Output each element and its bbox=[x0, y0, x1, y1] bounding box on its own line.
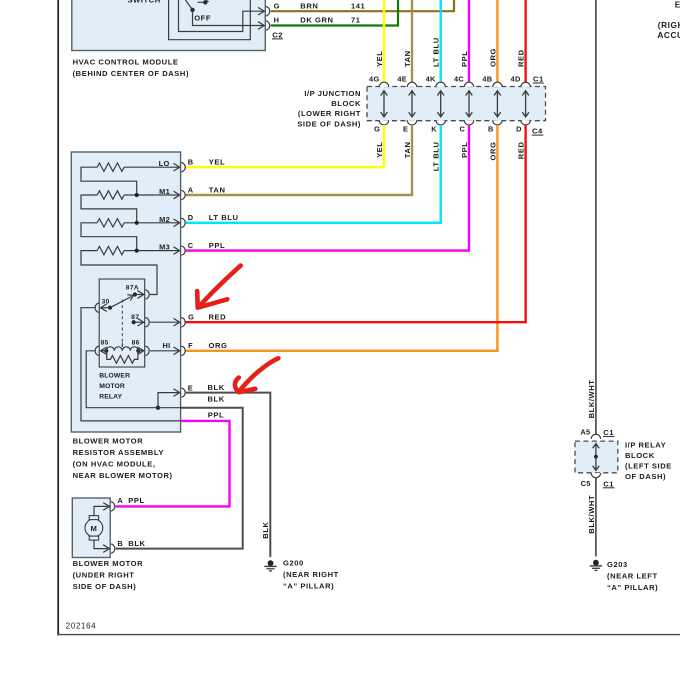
svg-text:SIDE OF DASH): SIDE OF DASH) bbox=[73, 582, 137, 591]
wire PPL from resistor box to motor pin A bbox=[116, 421, 230, 507]
svg-text:TAN: TAN bbox=[209, 185, 226, 194]
svg-text:ORG: ORG bbox=[488, 48, 497, 67]
wire 86 to relay edge bbox=[138, 350, 143, 352]
motor pin A connector arc bbox=[111, 502, 115, 511]
pin A connector arc bbox=[181, 190, 185, 199]
wire PPL to resistor pin C bbox=[185, 125, 469, 251]
svg-text:(RIGHT: (RIGHT bbox=[658, 20, 680, 30]
relay 86 connector arc bbox=[145, 346, 149, 355]
I/P relay block pass-through bump (top) bbox=[591, 434, 600, 439]
node M1 junction dot bbox=[135, 193, 139, 197]
arrow into pin F bbox=[174, 347, 180, 355]
resistor R2 (M1) bbox=[97, 191, 124, 199]
svg-text:K: K bbox=[431, 125, 437, 134]
relay 30 connector arc bbox=[95, 303, 99, 312]
svg-text:4C: 4C bbox=[454, 74, 464, 83]
relay pin 85 node bbox=[104, 349, 108, 353]
wire stub at upper contact bbox=[198, 1, 206, 3]
svg-text:MOTOR: MOTOR bbox=[99, 383, 125, 390]
wire junction to pin E bbox=[158, 393, 178, 408]
relay pin 87 node bbox=[132, 320, 136, 324]
svg-text:A5: A5 bbox=[580, 428, 590, 437]
svg-text:A: A bbox=[117, 496, 123, 505]
junction node bbox=[156, 406, 160, 410]
pin G connector arc bbox=[181, 318, 185, 327]
svg-text:YEL: YEL bbox=[375, 51, 384, 67]
HVAC control module box bbox=[72, 0, 265, 51]
svg-text:4G: 4G bbox=[369, 74, 379, 83]
wire R1 to pin B bbox=[124, 166, 178, 168]
svg-text:B: B bbox=[188, 158, 194, 167]
svg-text:(NEAR RIGHT: (NEAR RIGHT bbox=[283, 570, 339, 579]
wire junction continues right (BLK) bbox=[158, 407, 181, 409]
svg-text:71: 71 bbox=[351, 16, 361, 25]
wire 86 to pin F (HI) bbox=[150, 350, 178, 352]
svg-text:HI: HI bbox=[163, 341, 171, 350]
relay 85 connector arc bbox=[95, 346, 99, 355]
svg-text:C4: C4 bbox=[532, 127, 543, 136]
chain wire R4 left end to relay pin 87A bbox=[81, 251, 157, 295]
svg-text:RED: RED bbox=[209, 313, 227, 322]
arrow at 30 relay edge bbox=[101, 304, 107, 312]
svg-text:M2: M2 bbox=[159, 215, 170, 224]
chain wire R1 left end to M1 node bbox=[81, 167, 137, 195]
arrow at 87A relay edge bbox=[138, 291, 144, 299]
svg-text:LT BLU: LT BLU bbox=[432, 142, 441, 172]
resistor R3 (M2) bbox=[97, 219, 124, 227]
motor brush terminal (bottom) bbox=[89, 536, 98, 540]
svg-text:B: B bbox=[117, 539, 123, 548]
arrow into pin A bbox=[103, 503, 109, 511]
svg-text:(NEAR LEFT: (NEAR LEFT bbox=[607, 572, 658, 581]
wire R2 to pin A bbox=[124, 194, 178, 196]
svg-text:E: E bbox=[675, 0, 680, 9]
wire DK GRN 71 from pin H bbox=[271, 0, 398, 26]
arrow at 86 relay edge bbox=[138, 347, 144, 355]
arrow into pin A bbox=[174, 191, 180, 199]
pin G connector arc bbox=[266, 7, 270, 16]
wire BRN 141 from pin G bbox=[271, 0, 454, 11]
arrow into pin E bbox=[174, 389, 180, 397]
chain wire R3 left end to M3 node bbox=[81, 223, 137, 251]
svg-text:YEL: YEL bbox=[375, 142, 384, 158]
blower motor resistor assembly box bbox=[71, 152, 180, 432]
wire OFF contact to pin H bbox=[193, 10, 264, 26]
arrow on wiper bbox=[127, 295, 133, 301]
svg-text:G200: G200 bbox=[283, 558, 304, 567]
pin E connector arc bbox=[181, 388, 185, 397]
svg-text:202164: 202164 bbox=[66, 621, 97, 630]
svg-text:85: 85 bbox=[101, 340, 109, 347]
svg-text:A: A bbox=[188, 185, 194, 194]
wire LT BLU (top vertical) bbox=[440, 0, 442, 83]
svg-text:LO: LO bbox=[159, 159, 170, 168]
svg-text:M1: M1 bbox=[159, 187, 170, 196]
svg-text:RED: RED bbox=[517, 49, 526, 67]
blower motor relay box bbox=[99, 279, 145, 367]
switch wiper 30 to 87A bbox=[110, 296, 132, 307]
relay block center node bbox=[594, 455, 598, 459]
svg-text:(LOWER RIGHT: (LOWER RIGHT bbox=[298, 109, 361, 118]
relay 87 connector arc bbox=[145, 318, 149, 327]
wire 87 to pin G bbox=[150, 321, 178, 323]
svg-text:TAN: TAN bbox=[403, 50, 412, 67]
annotation red arrow 2 (points at BLK wire) bbox=[235, 358, 278, 392]
svg-text:G203: G203 bbox=[607, 560, 628, 569]
svg-text:BLK: BLK bbox=[208, 383, 225, 392]
svg-text:“A” PILLAR): “A” PILLAR) bbox=[283, 582, 334, 591]
svg-text:G: G bbox=[374, 125, 380, 134]
svg-text:4D: 4D bbox=[511, 74, 521, 83]
svg-text:BLK/WHT: BLK/WHT bbox=[587, 380, 596, 419]
svg-text:PPL: PPL bbox=[128, 496, 144, 505]
svg-text:F: F bbox=[188, 341, 193, 350]
wire BLK from pin E to ground G200 bbox=[186, 393, 271, 557]
svg-text:D: D bbox=[516, 125, 522, 134]
svg-text:ORG: ORG bbox=[209, 341, 228, 350]
wire BLK/WHT (top, to I/P relay block) bbox=[595, 0, 597, 439]
svg-text:C5: C5 bbox=[581, 479, 591, 488]
svg-text:H: H bbox=[274, 16, 280, 25]
wire 30 down and out (becomes PPL) bbox=[81, 308, 181, 421]
wire BLK from junction to motor pin B bbox=[116, 408, 243, 549]
svg-text:E: E bbox=[403, 125, 408, 134]
svg-text:RELAY: RELAY bbox=[99, 394, 122, 401]
svg-text:BLOWER MOTOR: BLOWER MOTOR bbox=[73, 436, 144, 445]
svg-text:RESISTOR ASSEMBLY: RESISTOR ASSEMBLY bbox=[73, 448, 164, 457]
I/P relay block pass-through bump (bottom) bbox=[591, 473, 600, 478]
svg-text:E: E bbox=[188, 383, 193, 392]
svg-text:86: 86 bbox=[132, 340, 140, 347]
svg-text:NEAR BLOWER MOTOR): NEAR BLOWER MOTOR) bbox=[73, 471, 173, 480]
relay pin 30 node bbox=[108, 306, 112, 310]
annotation red arrow 1 (points at pin G RED) bbox=[197, 266, 241, 308]
svg-text:4B: 4B bbox=[482, 74, 492, 83]
svg-text:RED: RED bbox=[517, 142, 526, 160]
wire R4 to pin C bbox=[124, 250, 178, 252]
relay pin 86 node bbox=[136, 349, 140, 353]
pin C connector arc bbox=[181, 246, 185, 255]
wire LT BLU to resistor pin D bbox=[185, 125, 440, 223]
svg-text:87A: 87A bbox=[126, 285, 139, 292]
svg-text:HVAC CONTROL MODULE: HVAC CONTROL MODULE bbox=[73, 57, 179, 66]
left page border bbox=[57, 0, 59, 635]
arrow into pin B bbox=[103, 545, 109, 553]
wire YEL (top vertical into junction block) bbox=[383, 0, 385, 83]
svg-text:“A” PILLAR): “A” PILLAR) bbox=[607, 583, 658, 592]
svg-text:4K: 4K bbox=[426, 74, 436, 83]
pin D connector arc bbox=[181, 218, 185, 227]
wire motor to pin B bbox=[94, 540, 108, 549]
ground G203 bbox=[593, 560, 599, 566]
svg-text:C1: C1 bbox=[533, 75, 544, 84]
svg-text:BLOCK: BLOCK bbox=[331, 99, 361, 108]
wire TAN to resistor pin A bbox=[185, 125, 412, 195]
arrow into pin B bbox=[174, 163, 180, 171]
svg-text:ACCUM: ACCUM bbox=[657, 30, 680, 40]
svg-text:87: 87 bbox=[131, 314, 139, 321]
svg-text:C1: C1 bbox=[603, 428, 614, 437]
svg-text:C1: C1 bbox=[603, 479, 614, 488]
motor brush terminal (top) bbox=[89, 516, 98, 520]
svg-text:M: M bbox=[90, 524, 97, 533]
wire motor to pin A bbox=[94, 506, 108, 515]
motor pin B connector arc bbox=[111, 544, 115, 553]
svg-text:(ON HVAC MODULE,: (ON HVAC MODULE, bbox=[73, 459, 156, 468]
node M3 junction dot bbox=[135, 249, 139, 253]
svg-text:PPL: PPL bbox=[460, 51, 469, 67]
svg-text:ORG: ORG bbox=[488, 142, 497, 161]
wire switch loop (both ends cut off at top) bbox=[169, 0, 251, 40]
svg-text:141: 141 bbox=[351, 1, 366, 10]
pin F connector arc bbox=[181, 346, 185, 355]
wire R3 to pin D bbox=[124, 222, 178, 224]
arrow into pin D bbox=[174, 219, 180, 227]
svg-text:G: G bbox=[188, 313, 194, 322]
svg-text:YEL: YEL bbox=[209, 158, 225, 167]
wire ORG (top vertical) bbox=[496, 0, 498, 83]
svg-text:I/P JUNCTION: I/P JUNCTION bbox=[304, 89, 361, 98]
svg-text:BLOWER: BLOWER bbox=[99, 372, 130, 379]
relay pin 87A node bbox=[133, 292, 137, 296]
svg-text:SWITCH: SWITCH bbox=[128, 0, 161, 4]
resistor R4 (M3) bbox=[97, 246, 124, 254]
junction block internal double arrows bbox=[381, 91, 529, 117]
svg-text:LT BLU: LT BLU bbox=[432, 37, 441, 67]
svg-text:D: D bbox=[188, 213, 194, 222]
wire RED to relay pin G bbox=[185, 125, 525, 322]
pin B connector arc bbox=[181, 163, 185, 172]
svg-text:B: B bbox=[488, 125, 494, 134]
arrow into pin H bbox=[258, 22, 264, 30]
svg-text:BLK: BLK bbox=[261, 521, 270, 538]
ground G200 bbox=[268, 560, 274, 566]
blower motor box bbox=[72, 498, 110, 558]
arrow into pin C bbox=[174, 247, 180, 255]
svg-text:TAN: TAN bbox=[403, 142, 412, 159]
relay coil bbox=[106, 347, 138, 351]
coil center tick bbox=[121, 342, 123, 347]
wire PPL (top vertical) bbox=[468, 0, 470, 83]
svg-text:C2: C2 bbox=[272, 30, 283, 39]
svg-text:C: C bbox=[188, 241, 194, 250]
switch wiper arm (cut off) bbox=[185, 0, 193, 10]
svg-text:G: G bbox=[274, 1, 280, 10]
svg-text:M3: M3 bbox=[159, 243, 170, 252]
junction block pass-through bumps (bottom) bbox=[379, 120, 530, 125]
svg-text:DK GRN: DK GRN bbox=[300, 16, 333, 25]
wire switch to pin G bbox=[179, 0, 264, 32]
svg-text:BLOCK: BLOCK bbox=[625, 451, 655, 460]
chain wire R2 left end to M2 node bbox=[81, 195, 137, 223]
mechanical link (dashed) bbox=[121, 300, 123, 347]
svg-text:PPL: PPL bbox=[460, 142, 469, 158]
svg-text:(LEFT SIDE: (LEFT SIDE bbox=[625, 462, 672, 471]
wire RED (top vertical) bbox=[524, 0, 526, 83]
arrow at 87 relay edge bbox=[138, 318, 144, 326]
wire TAN (top vertical) bbox=[411, 0, 413, 83]
bottom page border bbox=[57, 634, 680, 636]
motor M circle bbox=[85, 519, 103, 537]
switch OFF contact node bbox=[190, 8, 194, 12]
svg-text:BLK: BLK bbox=[128, 539, 145, 548]
wire YEL to resistor pin B bbox=[185, 125, 384, 167]
arrow at 85 relay edge bbox=[101, 347, 107, 355]
svg-text:PPL: PPL bbox=[208, 411, 224, 420]
pin H connector arc bbox=[266, 21, 270, 30]
coil parallel resistor bbox=[107, 351, 138, 363]
wire 87 to relay edge bbox=[134, 321, 143, 323]
svg-text:BLK: BLK bbox=[208, 395, 225, 404]
relay 87A connector arc bbox=[145, 290, 149, 299]
resistor R1 (LO) bbox=[97, 163, 124, 171]
svg-text:SIDE OF DASH): SIDE OF DASH) bbox=[297, 119, 361, 128]
wire ORG to relay pin F bbox=[185, 125, 497, 351]
svg-text:(UNDER RIGHT: (UNDER RIGHT bbox=[73, 571, 135, 580]
svg-text:(BEHIND CENTER OF DASH): (BEHIND CENTER OF DASH) bbox=[73, 69, 189, 78]
svg-text:PPL: PPL bbox=[209, 241, 225, 250]
svg-text:C: C bbox=[460, 125, 466, 134]
svg-text:4E: 4E bbox=[397, 74, 407, 83]
wire 85 to relay left edge bbox=[101, 350, 106, 352]
svg-text:BLOWER MOTOR: BLOWER MOTOR bbox=[73, 559, 144, 568]
arrow into pin G bbox=[174, 318, 180, 326]
I/P relay block (dashed) bbox=[575, 441, 618, 473]
svg-text:OF DASH): OF DASH) bbox=[625, 472, 666, 481]
wire BLK/WHT (bottom, to ground G203) bbox=[595, 478, 597, 557]
node M2 junction dot bbox=[135, 221, 139, 225]
svg-text:OFF: OFF bbox=[194, 13, 211, 22]
svg-text:BRN: BRN bbox=[300, 1, 318, 10]
wire 85 down to junction bbox=[86, 351, 158, 408]
arrow into pin G bbox=[258, 7, 264, 15]
svg-text:BLK/WHT: BLK/WHT bbox=[587, 495, 596, 534]
svg-text:I/P RELAY: I/P RELAY bbox=[625, 441, 666, 450]
wire 87A to relay edge bbox=[135, 294, 143, 296]
I/P junction block (dashed) bbox=[367, 87, 546, 121]
wire 30 to relay left edge bbox=[101, 307, 110, 309]
relay block internal double arrow bbox=[593, 444, 600, 471]
switch contact node (upper) bbox=[203, 0, 207, 4]
junction block pass-through bumps (top) bbox=[379, 82, 530, 87]
svg-text:LT BLU: LT BLU bbox=[209, 213, 239, 222]
